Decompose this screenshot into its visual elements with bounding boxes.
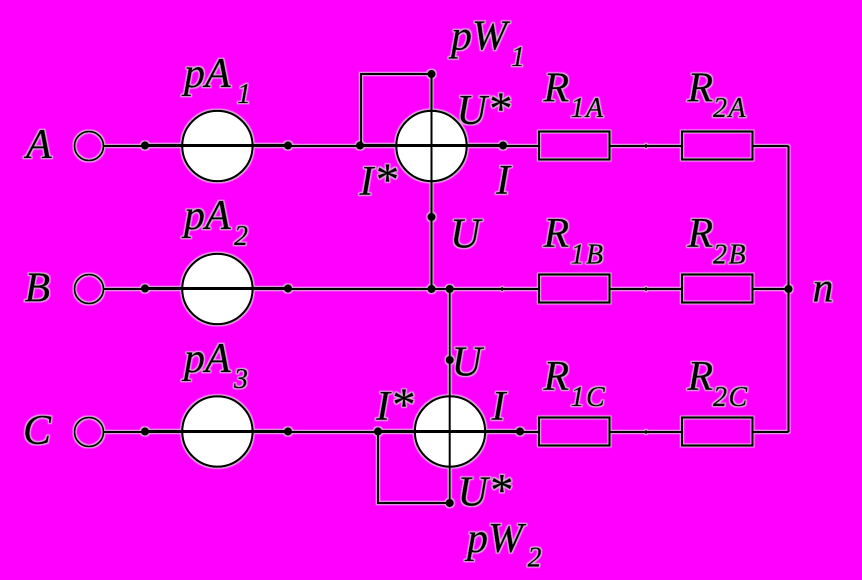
terminal A	[75, 132, 104, 161]
wire terminal C to first junction	[104, 431, 146, 433]
svg-text:pA: pA	[181, 336, 231, 382]
wire R2C to right bus	[754, 431, 789, 433]
svg-text:R: R	[543, 211, 570, 257]
svg-text:2: 2	[234, 221, 250, 252]
resistor R2A	[682, 132, 753, 160]
svg-text:1B: 1B	[571, 240, 605, 271]
pW1 U* terminal dot	[427, 70, 435, 78]
svg-text:1A: 1A	[571, 93, 605, 124]
pW1 U mid dot	[427, 213, 435, 221]
svg-text:1C: 1C	[571, 382, 607, 413]
wire R2B to node n	[754, 288, 789, 290]
pW1 voltage tap bracket wire	[361, 74, 432, 146]
tick on wire C	[645, 430, 647, 434]
resistor R2C	[682, 418, 753, 446]
pW2 voltage branch wire	[449, 289, 451, 503]
svg-text:R: R	[543, 66, 570, 112]
pW2 voltage tap bracket wire	[378, 432, 450, 504]
junction dot B2	[284, 284, 292, 292]
svg-text:R: R	[687, 66, 714, 112]
svg-text:U: U	[452, 340, 485, 386]
svg-text:2: 2	[528, 543, 544, 574]
wire R1A to R2A	[611, 145, 682, 147]
pW2 voltage junction dot on B	[446, 285, 454, 293]
wattmeter pW1	[396, 111, 466, 181]
wire thick through pW1	[360, 144, 503, 147]
tick on wire A	[645, 144, 647, 148]
pW2 U* terminal dot	[446, 499, 454, 507]
ammeter pA2	[182, 254, 252, 324]
pW1 voltage branch wire	[431, 74, 433, 289]
resistor R1A	[539, 132, 610, 160]
resistor R1B	[539, 275, 610, 303]
svg-text:2B: 2B	[713, 240, 747, 271]
svg-text:U: U	[450, 212, 483, 258]
wire C2 to wattmeter pW2	[288, 431, 378, 433]
resistor R2B	[682, 275, 753, 303]
svg-text:2A: 2A	[713, 93, 747, 124]
wattmeter pW2	[415, 396, 485, 466]
wire thick through pA3	[145, 430, 288, 433]
svg-text:1: 1	[237, 79, 253, 110]
node n dot	[784, 285, 792, 293]
wire terminal B to first junction	[104, 288, 146, 290]
pW2 I* junction dot	[374, 427, 382, 435]
wire thick through pA2	[145, 287, 288, 290]
svg-text:3: 3	[233, 364, 250, 395]
tick on wire B mid	[645, 287, 647, 291]
junction dot A2	[284, 141, 292, 149]
svg-text:pA: pA	[181, 193, 231, 239]
terminal B	[75, 275, 104, 304]
pW2 U mid dot	[446, 356, 454, 364]
junction dot C1	[141, 427, 149, 435]
svg-text:I: I	[491, 384, 508, 430]
wire R1B to R2B	[611, 288, 682, 290]
terminal C	[75, 418, 104, 447]
svg-text:1: 1	[511, 42, 527, 73]
svg-text:pW: pW	[464, 516, 527, 562]
svg-text:R: R	[687, 211, 714, 257]
wire A2 to wattmeter current in	[288, 145, 360, 147]
junction dot C2	[284, 427, 292, 435]
ammeter pA1	[182, 111, 252, 181]
resistor R1C	[539, 418, 610, 446]
wire pW2 to R1C	[520, 431, 540, 433]
svg-text:U*: U*	[457, 83, 511, 135]
wire R1C to R2C	[611, 431, 682, 433]
junction dot B1	[141, 284, 149, 292]
wire B2 to R1B	[288, 288, 540, 290]
right bus wire	[788, 146, 790, 432]
svg-text:R: R	[687, 354, 714, 400]
svg-text:pA: pA	[181, 51, 231, 97]
tick on wire B	[501, 287, 503, 291]
svg-text:R: R	[543, 354, 570, 400]
pW1 I* junction dot	[356, 141, 364, 149]
svg-text:pW: pW	[448, 14, 511, 60]
svg-text:I*: I*	[375, 379, 414, 431]
ammeter pA3	[182, 396, 252, 466]
junction dot A1	[141, 141, 149, 149]
wire thick through pW2	[378, 430, 520, 433]
pW2 I junction dot	[516, 427, 524, 435]
svg-text:B: B	[25, 266, 51, 312]
wire terminal A to first junction	[104, 145, 146, 147]
pW1 I junction dot	[499, 141, 507, 149]
svg-text:I: I	[495, 158, 512, 204]
pW1 voltage junction dot on B	[427, 285, 435, 293]
svg-text:2C: 2C	[713, 382, 749, 413]
svg-text:C: C	[23, 408, 52, 454]
wire pW1 to R1A	[503, 145, 540, 147]
wire thick through pA1	[145, 144, 288, 147]
svg-text:U*: U*	[458, 465, 512, 517]
svg-text:A: A	[23, 122, 52, 168]
wire R2A to right bus	[754, 145, 789, 147]
svg-text:n: n	[813, 266, 834, 312]
svg-text:I*: I*	[359, 154, 398, 206]
